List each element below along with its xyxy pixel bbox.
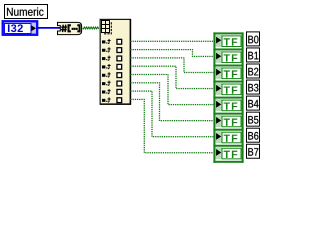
boolean indicator terminal TF (B6) — [215, 131, 241, 143]
numeric control terminal I32 (Numeric) — [3, 21, 37, 34]
TF column green borders — [213, 32, 243, 162]
boolean indicator terminal TF (B0) — [215, 35, 241, 47]
boolean indicator terminal TF (B1) — [215, 51, 241, 63]
label B5 — [247, 112, 260, 126]
label B0 — [247, 32, 260, 46]
label B6 — [247, 128, 260, 142]
index row 4 glyphs — [102, 72, 122, 78]
index row 3 glyphs — [102, 64, 122, 70]
boolean indicator terminal TF (B5) — [215, 115, 241, 127]
boolean indicator terminals column TF B0..B7 — [213, 32, 243, 162]
index row 6 glyphs — [102, 89, 122, 95]
wire: boolean (green dotted) Index Array row 4 to TF B4 — [130, 74, 213, 105]
wire: boolean (green dotted) Index Array row 5 to TF B5 — [130, 82, 212, 121]
wire: I32 to Number To Boolean Array (blue numeric wire) — [38, 27, 60, 29]
function: Index Array (expanded, 8 outputs) — [100, 19, 132, 105]
index row 2 glyphs — [102, 55, 122, 61]
index row 0 glyphs — [102, 39, 122, 45]
label "Numeric" for control — [5, 5, 48, 19]
wire: boolean (green dotted) Index Array row 0 to TF B0 — [130, 41, 213, 42]
function: Number To Boolean Array (#[...]) — [58, 22, 82, 34]
wire: boolean (green dotted) Index Array row 7 to TF B7 — [130, 99, 212, 154]
wire: boolean (green dotted) Index Array row 3 to TF B3 — [130, 66, 212, 90]
label B2 — [247, 64, 260, 78]
boolean indicator terminal TF (B4) — [215, 99, 241, 111]
label B3 — [247, 80, 260, 94]
label B7 — [247, 144, 260, 158]
index row 1 glyphs — [102, 47, 122, 53]
boolean indicator terminal TF (B3) — [215, 83, 241, 95]
wire: boolean (green dotted) Index Array row 6 to TF B6 — [130, 90, 213, 137]
boolean indicator terminal TF (B2) — [215, 67, 241, 79]
label B1 — [247, 48, 260, 62]
array glyph (input array) — [101, 20, 111, 34]
index row 5 glyphs — [102, 80, 122, 86]
label B4 — [247, 96, 260, 110]
wire: boolean array (green zigzag) convert node to Index Array — [83, 27, 99, 29]
wire: boolean (green dotted) Index Array row 1 to TF B1 — [130, 49, 212, 57]
boolean indicator terminal TF (B7) — [215, 147, 241, 159]
index row 7 glyphs — [102, 97, 122, 103]
wire: boolean (green dotted) Index Array row 2 to TF B2 — [130, 57, 213, 73]
